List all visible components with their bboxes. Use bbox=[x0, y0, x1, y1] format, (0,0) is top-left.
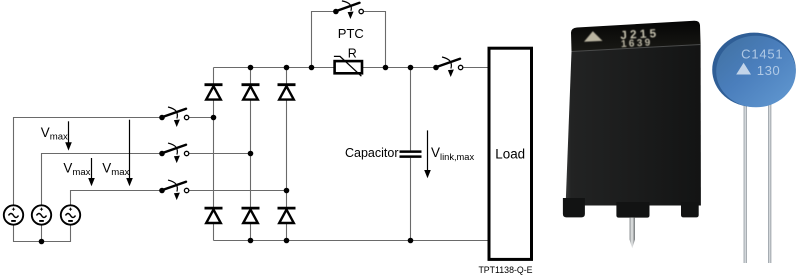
arrow Vmax phase2-3 bbox=[88, 158, 95, 186]
photo PTC thermistor logo triangle on top bbox=[584, 31, 603, 42]
svg-text:Vmax: Vmax bbox=[41, 125, 68, 143]
capacitor C1 bbox=[400, 152, 422, 157]
wire PTC bypass loop right bbox=[363, 12, 385, 68]
svg-text:C1451: C1451 bbox=[741, 47, 783, 62]
svg-text:1639: 1639 bbox=[621, 37, 653, 50]
source V3 bbox=[61, 205, 80, 224]
wire neutral connecting source bottoms bbox=[14, 225, 71, 242]
svg-text:Load: Load bbox=[495, 147, 525, 162]
diode D2 upper bbox=[242, 85, 260, 100]
svg-text:130: 130 bbox=[757, 63, 781, 78]
wire negative bus bottom bbox=[214, 240, 490, 242]
switch S5 PTC bypass bbox=[333, 1, 363, 19]
svg-text:TPT1138-Q-E: TPT1138-Q-E bbox=[478, 265, 532, 275]
photo disc thermistor lead left bbox=[744, 103, 747, 263]
svg-text:Vmax: Vmax bbox=[63, 160, 90, 178]
photo PTC thermistor black body top face bbox=[571, 21, 701, 52]
wire capacitor branch bbox=[410, 68, 412, 241]
arrow Vmax phase1-3 bbox=[126, 120, 133, 187]
wire bridge leg 3 bbox=[286, 68, 288, 241]
source V1 bbox=[4, 205, 23, 224]
node A phase1-bridge junction bbox=[211, 115, 217, 121]
diode D1 upper bbox=[205, 85, 223, 100]
switch S1 bbox=[159, 107, 189, 127]
node neutral junction bbox=[39, 239, 45, 245]
wire switch S4 to load bbox=[463, 67, 489, 69]
node bottom bus junction leg3 bbox=[284, 238, 290, 244]
svg-text:R: R bbox=[348, 46, 357, 60]
wire switch S3 to bridge node C bbox=[189, 190, 287, 192]
arrow Vlink,max bbox=[424, 130, 431, 178]
photo PTC thermistor front face bbox=[566, 45, 701, 206]
wire bridge leg 1 bbox=[213, 68, 215, 241]
photo PTC thermistor bottom feet bbox=[563, 198, 699, 218]
photo disc thermistor rim bbox=[712, 33, 796, 107]
node top bus junction leg3 bbox=[284, 65, 290, 71]
load box bbox=[489, 48, 532, 259]
wire switch S1 to bridge node A bbox=[189, 117, 214, 119]
svg-text:PTC: PTC bbox=[338, 26, 364, 41]
source V2 bbox=[32, 205, 51, 224]
node PTC loop right junction bbox=[383, 65, 389, 71]
node B phase2-bridge junction bbox=[248, 151, 254, 157]
node C phase3-bridge junction bbox=[284, 188, 290, 194]
photo disc thermistor lead right bbox=[768, 103, 771, 263]
resistor R (PTC thermistor) bbox=[334, 56, 362, 76]
svg-text:Vlink,max: Vlink,max bbox=[431, 145, 474, 162]
svg-text:Vmax: Vmax bbox=[102, 160, 129, 178]
node PTC loop left junction bbox=[309, 65, 315, 71]
wire phase 2 from source V2 to switch S2 bbox=[42, 154, 163, 206]
wire phase 3 from source V3 to switch S3 bbox=[71, 191, 163, 206]
node bottom bus junction leg2 bbox=[248, 238, 254, 244]
wire phase 1 from source V1 to switch S1 bbox=[14, 118, 163, 206]
wire switch S2 to bridge node B bbox=[189, 153, 251, 155]
node top bus junction leg2 bbox=[248, 65, 254, 71]
wire positive bus top bbox=[214, 67, 437, 69]
switch S4 load disconnect bbox=[433, 57, 463, 77]
diode D6 lower bbox=[278, 208, 296, 223]
switch S3 bbox=[159, 180, 189, 200]
diode D4 lower bbox=[205, 208, 223, 223]
photo PTC thermistor pin lead bbox=[630, 218, 636, 249]
wire bridge leg 2 bbox=[250, 68, 252, 241]
photo disc thermistor face bbox=[716, 36, 796, 108]
node capacitor bottom junction bbox=[408, 238, 414, 244]
photo disc thermistor logo triangle bbox=[736, 63, 751, 75]
svg-text:Capacitor: Capacitor bbox=[345, 146, 399, 160]
arrow Vmax phase1-2 bbox=[65, 121, 72, 150]
node capacitor top junction bbox=[408, 65, 414, 71]
switch S2 bbox=[159, 143, 189, 163]
wire PTC bypass loop left bbox=[312, 12, 336, 68]
diode D3 upper bbox=[278, 85, 296, 100]
diode D5 lower bbox=[242, 208, 260, 223]
